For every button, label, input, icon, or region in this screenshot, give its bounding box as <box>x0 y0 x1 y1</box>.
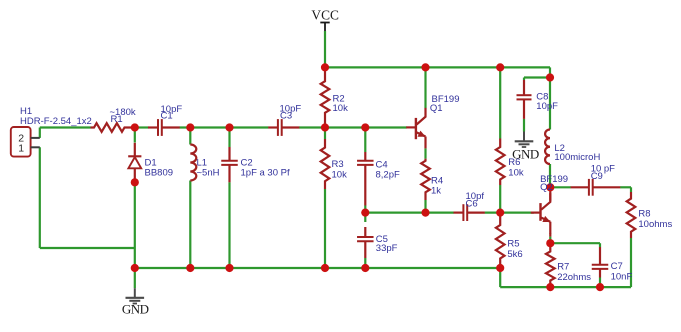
svg-text:R1: R1 <box>111 114 123 125</box>
svg-text:GND: GND <box>122 302 149 317</box>
svg-text:C7: C7 <box>611 261 623 272</box>
svg-text:33pF: 33pF <box>376 243 398 254</box>
svg-text:C9: C9 <box>591 171 603 182</box>
svg-text:HDR-F-2.54_1x2: HDR-F-2.54_1x2 <box>20 116 92 127</box>
svg-text:100microH: 100microH <box>554 152 600 163</box>
svg-text:1k: 1k <box>431 186 441 197</box>
svg-text:VCC: VCC <box>311 8 339 23</box>
svg-text:10k: 10k <box>333 103 349 114</box>
svg-text:C1: C1 <box>161 111 173 122</box>
svg-text:22ohms: 22ohms <box>557 272 591 283</box>
svg-text:R6: R6 <box>508 157 520 168</box>
svg-text:1: 1 <box>18 142 24 154</box>
svg-text:10pF: 10pF <box>536 101 558 112</box>
svg-text:C3: C3 <box>280 111 292 122</box>
svg-text:1pF a 30 Pf: 1pF a 30 Pf <box>241 168 290 179</box>
svg-text:R8: R8 <box>638 209 650 220</box>
svg-text:Q1: Q1 <box>430 103 443 114</box>
svg-text:BB809: BB809 <box>145 168 174 179</box>
svg-text:~5nH: ~5nH <box>197 168 220 179</box>
svg-text:10nF: 10nF <box>611 272 633 283</box>
svg-text:10k: 10k <box>508 168 524 179</box>
svg-text:8,2pF: 8,2pF <box>376 170 400 181</box>
svg-text:R5: R5 <box>507 238 519 249</box>
svg-text:C6: C6 <box>466 199 478 210</box>
svg-text:R7: R7 <box>557 262 569 273</box>
svg-text:10k: 10k <box>332 169 348 180</box>
svg-text:5k6: 5k6 <box>507 249 522 260</box>
svg-text:10ohms: 10ohms <box>638 219 672 230</box>
svg-text:Q2: Q2 <box>540 182 553 193</box>
